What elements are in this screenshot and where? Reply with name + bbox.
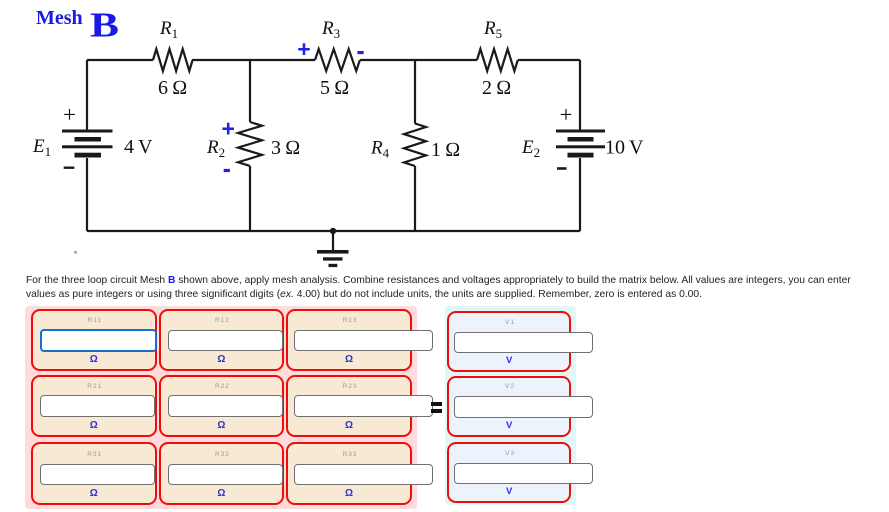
svg-text:+: +	[297, 36, 310, 62]
svg-text:10 V: 10 V	[605, 137, 644, 159]
svg-text:4 V: 4 V	[124, 136, 153, 158]
svg-text:E2: E2	[521, 137, 540, 160]
svg-text:R1: R1	[159, 18, 178, 41]
svg-text:2 Ω: 2 Ω	[482, 77, 511, 99]
svg-text:R5: R5	[483, 18, 502, 41]
svg-text:+: +	[560, 102, 573, 127]
svg-text:R4: R4	[370, 138, 390, 161]
svg-text:5 Ω: 5 Ω	[320, 77, 349, 99]
svg-text:+: +	[63, 102, 76, 127]
svg-text:Mesh: Mesh	[36, 7, 83, 29]
svg-text:+: +	[222, 116, 235, 142]
svg-text:R3: R3	[321, 18, 340, 41]
svg-text:3 Ω: 3 Ω	[271, 137, 300, 159]
svg-text:B: B	[90, 6, 119, 45]
svg-text:E1: E1	[32, 136, 51, 159]
svg-text:6 Ω: 6 Ω	[158, 77, 187, 99]
svg-text:1 Ω: 1 Ω	[431, 139, 460, 161]
